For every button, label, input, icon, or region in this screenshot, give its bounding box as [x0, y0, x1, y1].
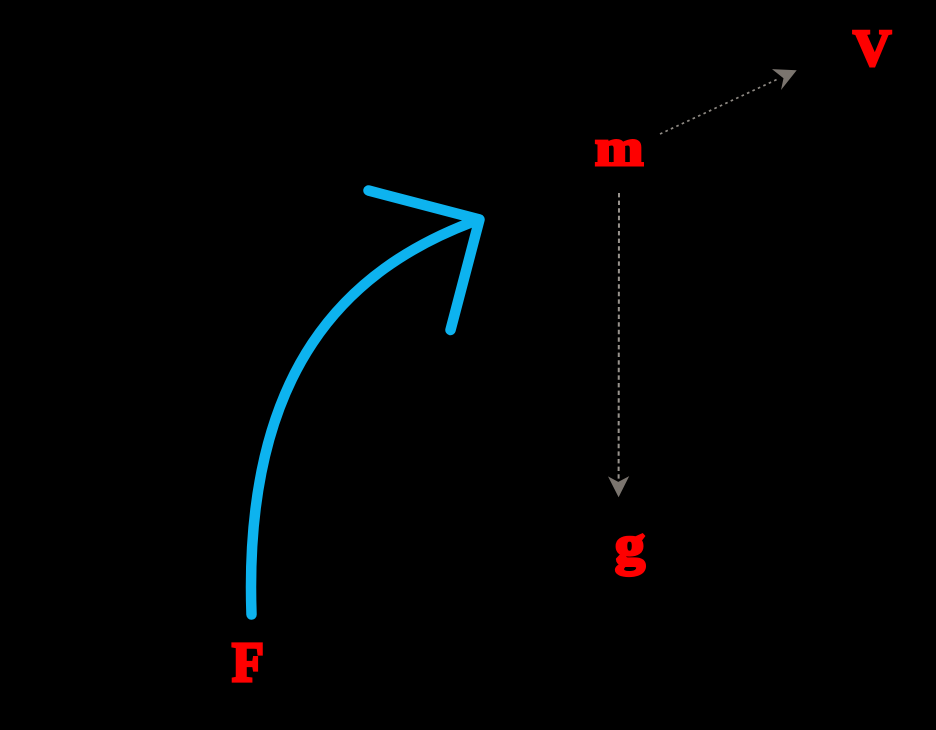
- gravity vector dashed line: [618, 193, 620, 481]
- force arrow F (blue curved stroke): [251, 223, 471, 615]
- svg-text:g: g: [615, 516, 645, 576]
- svg-text:m: m: [595, 119, 643, 177]
- svg-text:F: F: [232, 631, 264, 693]
- force arrow F head (blue open barbs): [369, 191, 480, 331]
- svg-text:V: V: [853, 19, 891, 76]
- gravity vector arrowhead: [608, 476, 629, 497]
- velocity vector dashed line: [660, 79, 779, 135]
- velocity vector arrowhead: [772, 69, 797, 90]
